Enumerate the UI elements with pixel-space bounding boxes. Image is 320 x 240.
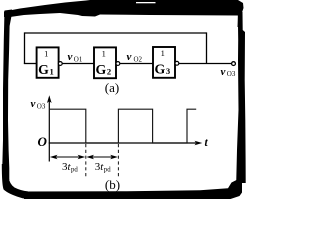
svg-text:1: 1 <box>50 67 54 77</box>
wire G3 output to terminal <box>179 63 232 65</box>
x-axis <box>49 142 196 144</box>
svg-text:(b): (b) <box>105 177 120 192</box>
svg-text:v: v <box>221 66 226 78</box>
wire: feedback left vertical <box>24 32 26 64</box>
white photocopy streak in top band <box>136 2 156 3</box>
svg-text:pd: pd <box>104 167 111 174</box>
dimension line 1 <box>52 156 83 158</box>
svg-text:1: 1 <box>102 49 106 59</box>
wire: input to G1 <box>24 63 37 65</box>
dimension line 2 <box>88 156 116 158</box>
wire feedback right vertical <box>206 32 208 64</box>
dim arrowhead left 1 <box>50 155 58 159</box>
label 3t_pd first <box>62 161 78 174</box>
svg-text:O: O <box>38 134 48 149</box>
label 3t_pd second <box>95 161 111 174</box>
x-axis arrowhead <box>195 141 203 146</box>
svg-text:v: v <box>68 51 73 63</box>
y-axis <box>48 100 50 162</box>
label v_O1 <box>68 51 83 64</box>
svg-text:2: 2 <box>107 67 111 77</box>
decorative photocopy border frame <box>2 0 246 199</box>
label v_O2 <box>127 51 143 64</box>
bubble G1 output <box>58 62 62 66</box>
label v_O3 output <box>221 66 236 78</box>
svg-text:1: 1 <box>44 49 48 59</box>
dim arrowhead right 1 <box>78 155 86 159</box>
dashed line at second rise <box>117 144 119 178</box>
dim arrowhead left 2 <box>86 155 94 159</box>
svg-text:G: G <box>38 62 49 77</box>
bubble G2 output <box>116 62 120 66</box>
svg-text:G: G <box>96 62 107 77</box>
svg-text:(a): (a) <box>105 80 119 95</box>
wire G2 to G3 <box>120 63 153 65</box>
output terminal circle <box>232 62 236 66</box>
svg-text:v: v <box>31 98 36 110</box>
bubble G3 output <box>175 61 179 65</box>
y-axis arrowhead <box>47 95 52 103</box>
gate G3 <box>153 47 175 78</box>
svg-text:O3: O3 <box>37 102 46 110</box>
svg-text:O3: O3 <box>227 70 236 78</box>
svg-text:O1: O1 <box>74 56 83 64</box>
svg-text:O2: O2 <box>134 56 143 64</box>
wire: feedback top <box>25 32 207 34</box>
dashed line at first fall <box>85 144 87 178</box>
gate G2 <box>94 47 116 78</box>
svg-text:1: 1 <box>161 48 165 58</box>
svg-text:3: 3 <box>166 66 170 76</box>
svg-text:G: G <box>155 61 166 76</box>
label v_O3 axis <box>31 98 46 110</box>
waveform square wave <box>49 109 196 143</box>
svg-text:v: v <box>127 51 132 63</box>
gate G1 <box>37 47 59 77</box>
svg-text:pd: pd <box>71 167 78 174</box>
dim arrowhead right 2 <box>110 155 118 159</box>
wire G1 to G2 <box>62 63 93 65</box>
